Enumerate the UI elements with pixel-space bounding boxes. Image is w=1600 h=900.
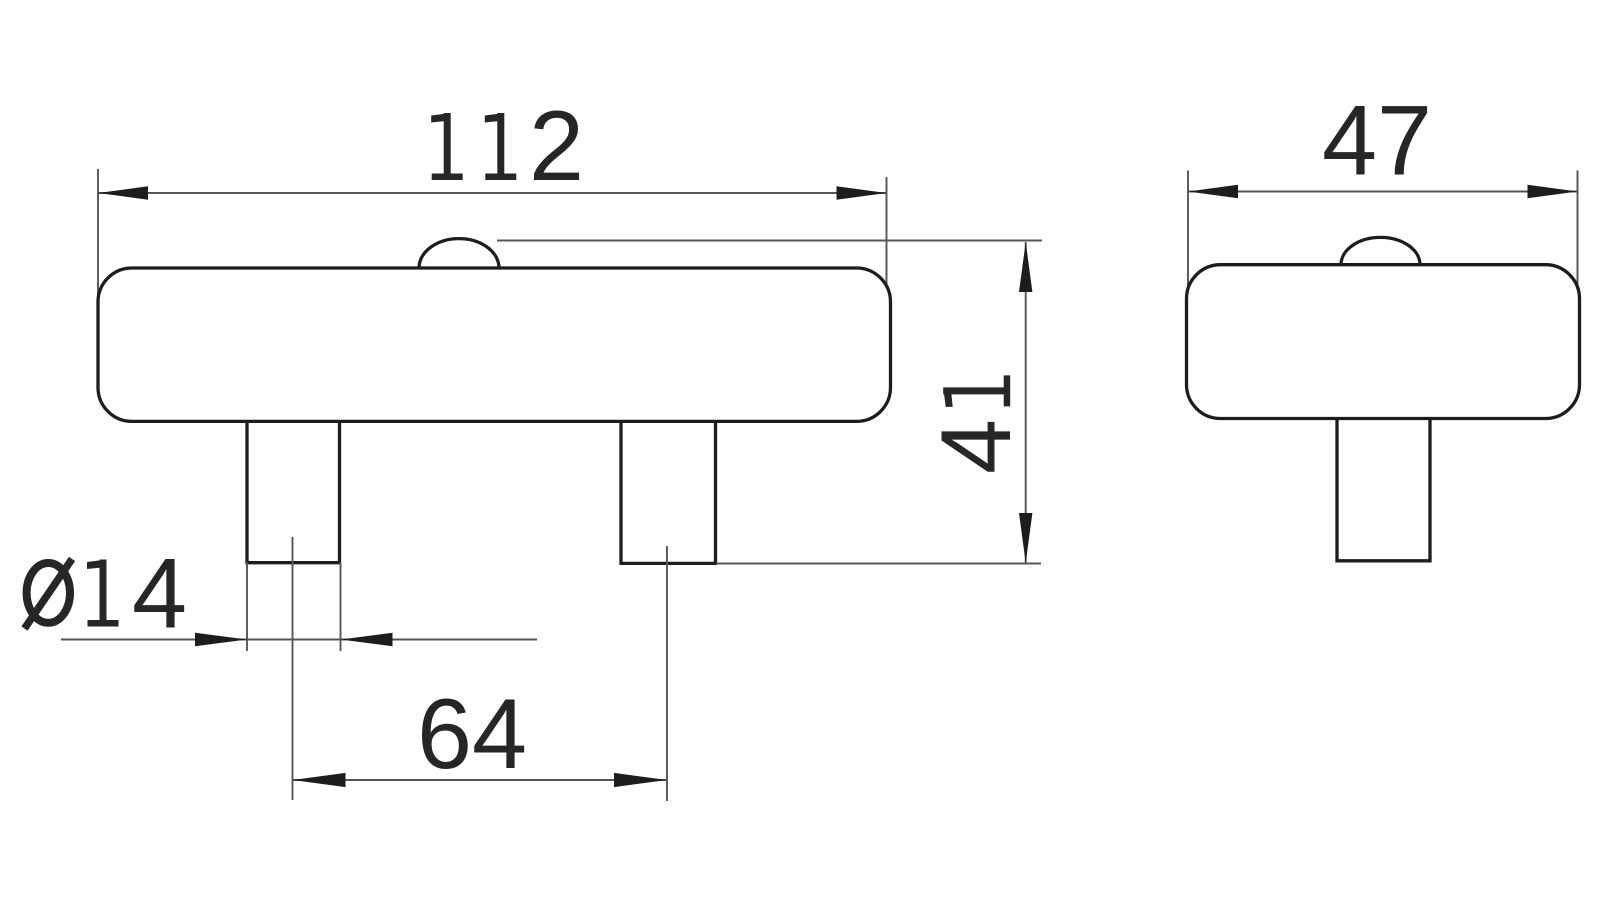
svg-text:4: 4 <box>920 419 1031 474</box>
svg-text:4: 4 <box>132 538 187 649</box>
svg-text:47: 47 <box>1322 85 1432 196</box>
svg-text:2: 2 <box>529 90 584 201</box>
svg-text:64: 64 <box>417 678 527 789</box>
